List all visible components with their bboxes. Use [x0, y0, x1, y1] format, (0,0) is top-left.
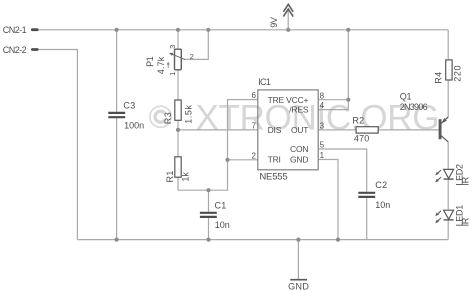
connector pin CN2-2	[3, 45, 37, 55]
svg-text:6: 6	[252, 91, 257, 100]
IC1 pin names	[268, 95, 309, 165]
svg-text:C2: C2	[375, 180, 387, 190]
svg-text:4.7k: 4.7k	[156, 56, 166, 74]
wire: R2 to Q1 base	[378, 129, 438, 131]
watermark XTRONIC.ORG	[150, 99, 439, 138]
wire: Q1 collector to LED2	[447, 142, 449, 170]
svg-text:2N3906: 2N3906	[400, 102, 428, 112]
wire: R1 bottom horizontal up to TRI node	[178, 160, 228, 190]
svg-text:GND: GND	[288, 282, 309, 292]
svg-text:IR: IR	[461, 176, 471, 185]
svg-text:/RES: /RES	[289, 105, 309, 115]
svg-text:CN2-2: CN2-2	[3, 45, 27, 55]
node: rail/wiper junction	[206, 28, 210, 32]
wire: VCC pin4 to rail vertical	[318, 30, 348, 110]
node: pin8/vcc junction	[346, 98, 350, 102]
svg-text:9V: 9V	[269, 17, 279, 28]
wire: GND symbol stem	[297, 240, 299, 280]
node: rail/9V junction	[286, 28, 290, 32]
svg-text:C3: C3	[123, 100, 135, 110]
wire: C1 bottom leg	[208, 218, 210, 240]
svg-text:4: 4	[320, 101, 325, 110]
svg-text:5: 5	[320, 141, 325, 150]
wire: C2 bottom leg	[366, 198, 368, 240]
LED LED2	[435, 164, 470, 186]
resistor R3	[163, 100, 193, 124]
svg-text:3: 3	[320, 121, 325, 130]
wire: DIS pin7 to R3/R1 node	[178, 129, 258, 131]
node: GND junction	[296, 238, 300, 242]
svg-text:100n: 100n	[124, 120, 144, 130]
wire: C1 top leg	[208, 190, 210, 212]
node: TRE/TRI junction	[225, 158, 229, 162]
wire: R4 to Q1 emitter	[447, 80, 449, 117]
connector pin CN2-1	[3, 25, 37, 35]
ground symbol	[288, 280, 309, 292]
svg-text:R3: R3	[163, 112, 173, 124]
wire: R1 bottom leg	[177, 177, 179, 190]
capacitor C3	[108, 100, 144, 130]
svg-text:R4: R4	[434, 71, 444, 83]
svg-text:IC1: IC1	[258, 77, 271, 87]
svg-text:1: 1	[320, 151, 325, 160]
node: pin1 bottom junction	[336, 238, 340, 242]
svg-text:2: 2	[190, 52, 194, 61]
node: C3 bottom junction	[115, 238, 119, 242]
wire: bottom ground rail	[77, 239, 448, 241]
wire: OUT pin3 to R2	[318, 129, 356, 131]
wire: TRE pin6 down to TRI node	[228, 100, 258, 160]
svg-text:470: 470	[354, 134, 370, 144]
wire: CN2-2 lead and left vertical	[38, 50, 78, 240]
wire: P1 wiper to rail	[184, 30, 209, 60]
wire: rail corner to R4	[447, 30, 449, 60]
wire: GND pin1 down to rail	[318, 160, 338, 240]
wire: LED1 to bottom rail	[447, 221, 449, 240]
svg-text:TRI: TRI	[268, 154, 281, 164]
svg-text:CN2-1: CN2-1	[3, 25, 27, 35]
node: C1 top junction	[206, 188, 210, 192]
svg-text:7: 7	[252, 121, 257, 130]
svg-text:GND: GND	[290, 154, 308, 164]
svg-text:10n: 10n	[375, 200, 390, 210]
wire: TRI pin2 horizontal	[228, 159, 258, 161]
supply symbol 9V	[283, 4, 293, 16]
node: DIS/R3/R1 junction	[176, 128, 180, 132]
transistor Q1 2N3906	[400, 92, 448, 142]
capacitor C2	[358, 180, 390, 210]
svg-text:P1: P1	[145, 56, 155, 67]
svg-text:1k: 1k	[181, 172, 191, 182]
wire: C3 branch vertical bottom	[116, 118, 118, 239]
svg-text:C1: C1	[215, 201, 227, 211]
IC1 pin numbers	[252, 91, 325, 160]
svg-text:OUT: OUT	[291, 125, 308, 135]
svg-text:1.5k: 1.5k	[183, 104, 193, 123]
wire: C3 branch vertical top	[116, 30, 118, 112]
wire: CON pin5 to C2 top	[318, 149, 367, 192]
svg-text:DIS: DIS	[268, 125, 282, 135]
wire: pin8 to vcc vertical	[318, 99, 348, 101]
node: rail/P1 junction	[176, 28, 180, 32]
capacitor C1	[200, 201, 230, 231]
svg-text:TRE: TRE	[268, 95, 285, 105]
wire: rail to P1	[177, 30, 179, 50]
svg-text:IR: IR	[461, 217, 471, 226]
LED LED1	[435, 205, 470, 227]
svg-text:3: 3	[168, 45, 177, 49]
svg-text:10n: 10n	[215, 220, 230, 230]
node: rail/VCC junction	[346, 28, 350, 32]
wire: top 9V rail	[38, 29, 448, 31]
svg-text:2: 2	[252, 151, 257, 160]
resistor R2	[352, 115, 378, 143]
node: C1 bottom junction	[206, 238, 210, 242]
svg-text:1: 1	[168, 72, 177, 76]
resistor R1	[165, 157, 191, 183]
wire: 9V supply stem	[287, 9, 289, 30]
svg-text:VCC+: VCC+	[286, 95, 308, 105]
wire: LED2 to LED1	[447, 180, 449, 211]
wire: R3 to R1	[177, 120, 179, 157]
svg-text:Q1: Q1	[400, 92, 412, 102]
svg-text:8: 8	[320, 91, 325, 100]
svg-text:220: 220	[453, 65, 463, 82]
node: rail/C3 junction	[115, 28, 119, 32]
wire: P1 to R3	[177, 70, 179, 100]
svg-text:CON: CON	[290, 144, 308, 154]
svg-text:R1: R1	[165, 170, 175, 182]
svg-text:R2: R2	[352, 115, 364, 125]
svg-text:NE555: NE555	[259, 172, 287, 183]
resistor R4	[434, 60, 463, 84]
potentiometer P1	[145, 45, 194, 76]
IC IC1 NE555	[258, 77, 318, 183]
